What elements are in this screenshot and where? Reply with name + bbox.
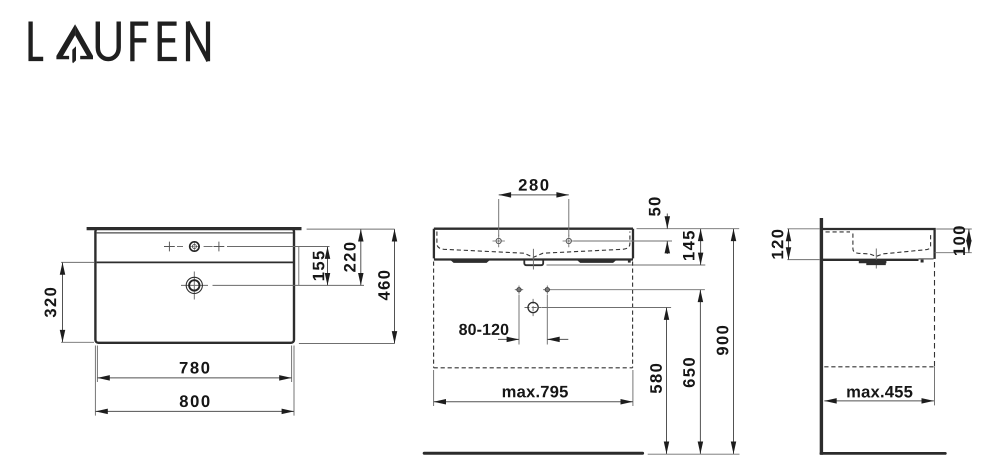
hole drop lines xyxy=(519,295,547,345)
max795 ext drops xyxy=(434,370,633,406)
dim 80-120 xyxy=(498,338,568,340)
sink profile xyxy=(823,229,935,260)
faucet cross right xyxy=(563,235,575,247)
faucet centerline dashes xyxy=(177,246,330,248)
label max.795 xyxy=(503,386,568,398)
drain trap dark xyxy=(859,260,887,265)
logo LAUFEN xyxy=(31,22,209,64)
drain box xyxy=(524,259,543,266)
label 220 xyxy=(344,243,356,272)
ext drop for max455 xyxy=(934,367,936,405)
dim 50 arrows outside xyxy=(666,214,668,255)
letter F xyxy=(132,24,148,62)
ext line top right xyxy=(307,228,395,230)
label max.455 xyxy=(847,386,912,398)
280 ext lines xyxy=(499,199,569,237)
faucet hole xyxy=(189,241,200,252)
letter A left leg with serif xyxy=(56,24,75,59)
left alt tap cross xyxy=(164,242,175,252)
hole ext line right xyxy=(552,289,705,291)
dim 780 xyxy=(97,377,291,379)
drain inner circle xyxy=(189,280,199,290)
letter L xyxy=(31,22,44,59)
letter A quill xyxy=(72,46,76,63)
bottom front tick xyxy=(921,260,924,263)
dim 100 xyxy=(968,229,970,253)
basin outline rect xyxy=(95,229,294,343)
dim 580 xyxy=(666,308,668,454)
dim 800 xyxy=(95,410,294,412)
dashed cabinet left xyxy=(433,262,435,368)
dim 120 xyxy=(788,229,790,260)
ext line 145 bottom xyxy=(547,264,706,266)
left pad xyxy=(449,259,491,263)
label 800 xyxy=(180,395,210,407)
label 460 xyxy=(378,271,390,301)
dim 145 xyxy=(700,229,702,265)
bottom right fixing tick xyxy=(628,260,631,263)
inner hidden profile dashed xyxy=(437,232,630,258)
ext line bottom right 460 xyxy=(299,343,395,345)
right pad xyxy=(576,259,618,263)
label 580 xyxy=(650,364,662,393)
label 120 xyxy=(772,230,784,259)
faucet cross left xyxy=(493,235,505,247)
deck divider line xyxy=(97,261,293,263)
dim 120 ext lines xyxy=(787,229,819,260)
hidden inner profile dashed xyxy=(826,232,931,257)
letter A right leg with serif xyxy=(75,24,93,59)
mounting hole right xyxy=(543,286,551,294)
dashed cabinet right xyxy=(632,262,634,368)
label 100 xyxy=(953,226,965,255)
dim max.455 xyxy=(824,400,934,402)
floor line middle xyxy=(424,452,642,455)
dashed bottom line xyxy=(824,366,934,368)
drain vertical centerline xyxy=(532,249,534,270)
dim 100 ext lines xyxy=(935,229,972,253)
label 320 xyxy=(45,288,57,317)
dim 650 xyxy=(699,290,701,454)
label 650 xyxy=(683,358,695,387)
label 280 xyxy=(519,179,549,191)
floor thin baseline xyxy=(648,453,740,455)
faucet centerline ext right xyxy=(574,240,673,242)
dim 155 xyxy=(327,247,329,286)
floor line right xyxy=(821,452,945,455)
ext line left bottom 320 xyxy=(61,341,94,343)
label 780 xyxy=(180,362,210,374)
dim 900 xyxy=(733,229,735,454)
back rim inner line xyxy=(97,232,293,234)
dashed cabinet bottom xyxy=(434,367,633,369)
siphon drain circle xyxy=(525,299,542,316)
top ext line right xyxy=(637,228,740,230)
dim 280 xyxy=(499,194,569,196)
drain outer circle xyxy=(186,277,202,293)
wall line xyxy=(820,218,823,455)
mounting hole left xyxy=(515,286,523,294)
drain centerline xyxy=(875,249,877,269)
letter E xyxy=(160,24,177,59)
ext line left divider 320 xyxy=(61,261,94,263)
label 145 xyxy=(683,231,695,260)
drain ext line right xyxy=(542,307,671,309)
thin front bottom lip xyxy=(919,258,934,260)
label 80-120 xyxy=(459,324,508,335)
dim max.795 xyxy=(434,401,633,403)
dashed drop line xyxy=(934,262,936,367)
dim 220 xyxy=(360,229,362,285)
ext drop lines bottom xyxy=(95,346,294,416)
label 50 xyxy=(649,197,661,216)
connector extension line xyxy=(298,247,300,286)
dim 460 xyxy=(394,229,396,343)
dim 320 xyxy=(62,262,64,342)
basin outline xyxy=(434,229,633,260)
letter N xyxy=(188,22,209,62)
label 900 xyxy=(717,326,729,355)
right alt tap cross xyxy=(214,242,225,252)
letter U xyxy=(98,22,119,60)
wall bar top xyxy=(87,227,302,230)
label 155 xyxy=(313,251,325,280)
drain crosshair xyxy=(181,272,364,300)
